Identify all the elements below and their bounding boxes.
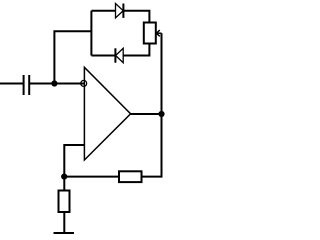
diode D1 (pointing right): [116, 4, 124, 18]
diode D2 (pointing left): [115, 48, 123, 62]
wire node A to inverting input: [54, 83, 84, 85]
wire R1 to ground: [63, 212, 65, 233]
ground: [54, 232, 75, 234]
wire wiper down to node B: [161, 33, 163, 114]
wire top branch right: [123, 11, 149, 23]
resistor R2 body (feedback): [119, 171, 142, 182]
wire pot bottom to bottom branch: [123, 44, 149, 56]
node C junction dot: [61, 174, 67, 180]
wire bottom branch left: [91, 55, 115, 57]
op-amp U1 triangle: [84, 67, 130, 160]
wire op-amp output: [131, 113, 162, 115]
wire node A up and across to feedback loop: [54, 31, 91, 84]
op-amp U1 inverting input bubble: [81, 80, 87, 86]
wire capacitor to node A: [30, 83, 55, 85]
potentiometer P1 body: [144, 23, 156, 44]
wire input lead to capacitor: [0, 83, 23, 85]
wire top branch left: [91, 10, 115, 12]
wire node C up to non-inverting input: [64, 145, 84, 177]
wire node C down to R1: [63, 177, 65, 191]
potentiometer P1 wiper arrow: [156, 30, 161, 36]
capacitor C1: [24, 75, 30, 95]
node B junction dot (output): [158, 111, 164, 117]
resistor R1 body: [59, 191, 70, 213]
node A junction dot: [51, 80, 57, 86]
wire R2 to node C: [64, 176, 119, 178]
wire feedback loop left vertical: [90, 11, 92, 56]
wire node B down to feedback resistor: [142, 114, 162, 177]
